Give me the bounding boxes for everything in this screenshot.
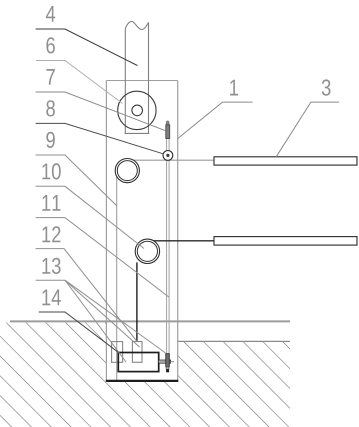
pole bottom cap: [125, 132, 150, 134]
link line to lower bar: [154, 240, 215, 242]
pole right edge: [148, 22, 150, 133]
upper guide roller inner: [117, 161, 137, 181]
leader 8: [36, 123, 164, 153]
leader 12: [36, 249, 137, 342]
pin 7 tip: [166, 121, 169, 125]
leader 10: [36, 186, 144, 248]
right soil top line: [178, 340, 290, 342]
eye circle 8: [163, 151, 173, 161]
tensioner cross line: [159, 361, 175, 363]
bolt body: [166, 354, 170, 367]
label 4: [46, 6, 55, 22]
label 14: [42, 290, 61, 306]
leader 4: [36, 29, 138, 66]
leader 11: [36, 218, 169, 297]
frame box inner left wall: [116, 176, 118, 381]
label 12: [42, 226, 60, 242]
bolt end nub: [166, 369, 169, 372]
label 7: [46, 69, 54, 85]
leader 7: [36, 92, 166, 131]
leader 3: [276, 102, 339, 157]
label 3: [322, 79, 331, 95]
leader 14: [39, 312, 119, 352]
leader 13 third: [65, 280, 166, 353]
pole break wavy top: [125, 21, 148, 29]
cable down from lower roller: [136, 262, 138, 341]
link line to upper bar: [134, 159, 215, 161]
base plate: [118, 353, 158, 372]
bolt lower sleeve: [166, 367, 169, 369]
lower bar 2: [214, 237, 357, 246]
ground hatch region: [0, 323, 290, 427]
label 1: [230, 80, 238, 96]
anchor block right: [132, 342, 142, 363]
label 6: [46, 37, 55, 53]
tie rod double line: [166, 139, 168, 355]
leader 9: [36, 155, 117, 206]
anchor block left: [112, 342, 123, 363]
tensioner arm: [159, 360, 171, 363]
leader 13 second: [65, 280, 140, 347]
lower guide roller inner: [137, 241, 157, 261]
label 13: [42, 258, 60, 274]
upper guide roller outer: [115, 159, 139, 183]
label 10: [42, 163, 60, 179]
upper bar 1: [214, 157, 357, 165]
leader 13 first: [36, 280, 126, 362]
leader 6: [36, 61, 123, 104]
label 11: [42, 195, 60, 211]
leader 1: [178, 102, 253, 139]
frame box right wall: [177, 81, 179, 382]
label 8: [46, 100, 55, 116]
pulley wheel: [118, 91, 156, 129]
frame box bottom: [106, 380, 179, 382]
lower guide roller outer: [135, 239, 159, 263]
pulley axle: [132, 105, 143, 116]
pin 7 body: [166, 125, 170, 139]
frame box outer left wall: [105, 81, 107, 382]
pole left edge: [124, 29, 126, 134]
eye circle 8 center dot: [166, 154, 169, 157]
label 9: [46, 132, 55, 148]
frame box top edge: [106, 80, 177, 82]
ground level line: [10, 320, 290, 322]
